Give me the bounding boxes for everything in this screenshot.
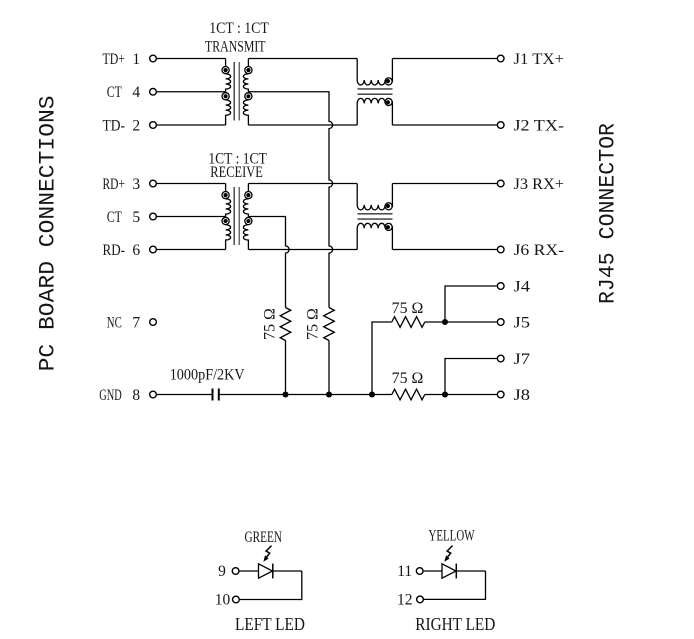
- svg-text:TD-: TD-: [103, 117, 126, 134]
- svg-text:TRANSMIT: TRANSMIT: [205, 38, 266, 55]
- svg-text:GREEN: GREEN: [245, 529, 283, 546]
- svg-text:75 Ω: 75 Ω: [392, 370, 424, 387]
- svg-text:J5: J5: [514, 314, 531, 331]
- svg-text:J8: J8: [514, 387, 531, 404]
- svg-text:10: 10: [215, 592, 231, 609]
- svg-text:75 Ω: 75 Ω: [305, 308, 322, 340]
- svg-text:RIGHT LED: RIGHT LED: [415, 614, 495, 634]
- svg-text:PC BOARD CONNECTIONS: PC BOARD CONNECTIONS: [35, 95, 60, 371]
- svg-text:1000pF/2KV: 1000pF/2KV: [170, 366, 246, 383]
- svg-text:J7: J7: [514, 351, 531, 368]
- svg-text:5: 5: [132, 209, 140, 226]
- svg-text:LEFT LED: LEFT LED: [235, 614, 305, 634]
- svg-text:1: 1: [132, 51, 140, 68]
- svg-text:11: 11: [397, 563, 412, 580]
- svg-text:J3 RX+: J3 RX+: [514, 176, 565, 193]
- svg-text:4: 4: [132, 84, 140, 101]
- svg-text:TD+: TD+: [103, 51, 126, 68]
- svg-text:GND: GND: [99, 387, 122, 404]
- svg-text:CT: CT: [107, 209, 122, 226]
- svg-text:7: 7: [132, 314, 140, 331]
- svg-text:75 Ω: 75 Ω: [262, 308, 279, 340]
- svg-text:75 Ω: 75 Ω: [392, 300, 424, 317]
- svg-text:J1 TX+: J1 TX+: [514, 51, 565, 68]
- svg-text:3: 3: [132, 176, 140, 193]
- svg-text:RD-: RD-: [103, 242, 126, 259]
- svg-text:2: 2: [132, 117, 140, 134]
- svg-text:6: 6: [132, 242, 140, 259]
- svg-text:RD+: RD+: [103, 176, 126, 193]
- svg-text:1CT : 1CT: 1CT : 1CT: [209, 20, 269, 37]
- svg-text:J4: J4: [514, 278, 531, 295]
- svg-text:J6 RX-: J6 RX-: [514, 242, 565, 259]
- svg-text:CT: CT: [107, 84, 122, 101]
- svg-text:12: 12: [397, 592, 413, 609]
- svg-text:NC: NC: [107, 314, 122, 331]
- svg-text:RECEIVE: RECEIVE: [210, 164, 263, 181]
- svg-text:9: 9: [218, 563, 226, 580]
- svg-text:YELLOW: YELLOW: [429, 527, 475, 544]
- svg-text:8: 8: [132, 387, 140, 404]
- svg-text:J2 TX-: J2 TX-: [514, 117, 565, 134]
- svg-text:RJ45 CONNECTOR: RJ45 CONNECTOR: [595, 123, 620, 304]
